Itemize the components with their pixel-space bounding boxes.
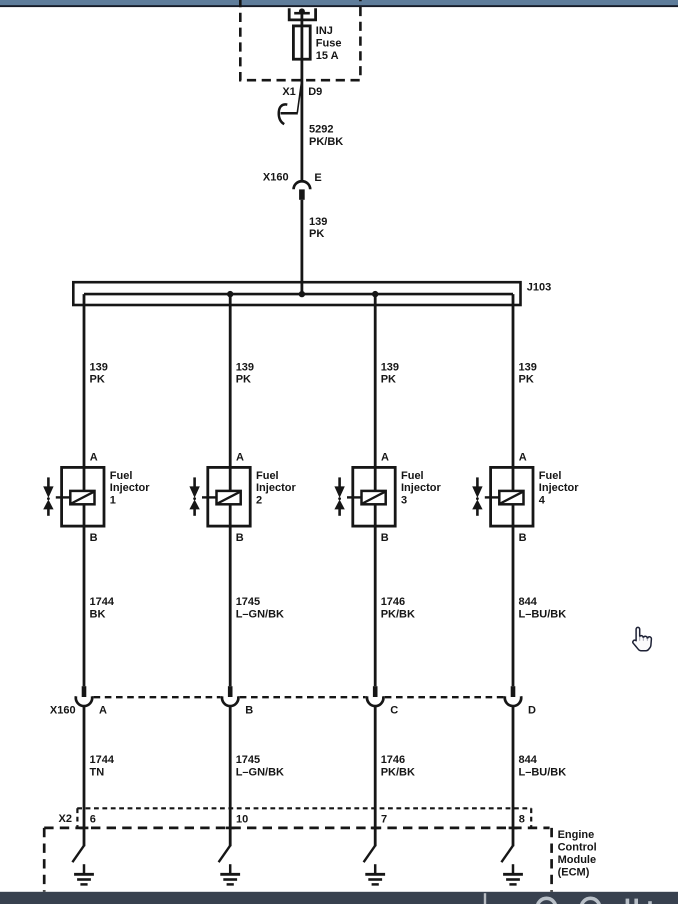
node: X2 pin 7 crossing tick — [371, 827, 380, 830]
svg-text:PK/BK: PK/BK — [381, 609, 415, 621]
bottom toolbar divider — [484, 893, 486, 904]
fuel injector 1 internal wire — [83, 467, 86, 526]
fuel injector 1 nozzle valve arrows — [43, 477, 70, 515]
svg-text:D: D — [528, 705, 536, 717]
svg-text:PK: PK — [236, 374, 251, 386]
wire 139 PK branch 4: J103 to injector 4 pin A — [512, 294, 515, 467]
wire 139 PK: X160 E to splice J103 — [300, 200, 303, 294]
svg-text:Engine: Engine — [558, 829, 595, 841]
ECM box top dashed edge — [44, 827, 549, 830]
svg-text:1744: 1744 — [90, 754, 115, 766]
connector X160 dashed link C-D — [385, 696, 504, 698]
node: X2 pin 6 crossing tick — [80, 827, 89, 830]
mouse hand cursor — [633, 627, 652, 650]
svg-text:Injector: Injector — [110, 482, 150, 494]
pin A label (X160) — [99, 705, 107, 717]
label: wire 139 PK branch 4 — [519, 361, 537, 385]
label: Fuel Injector 1 — [110, 470, 150, 507]
label: wire 139 PK branch 3 — [381, 361, 399, 385]
svg-text:844: 844 — [519, 596, 538, 608]
connector X2 strip left dash — [76, 808, 78, 827]
svg-text:A: A — [90, 452, 98, 464]
svg-text:139: 139 — [236, 361, 254, 373]
node: X2 pin 10 crossing tick — [226, 827, 235, 830]
svg-text:Injector: Injector — [256, 482, 296, 494]
svg-text:139: 139 — [90, 361, 108, 373]
fuel injector 3 outline box — [353, 467, 395, 526]
wire: fuse bottom to X1 pin D9 — [300, 59, 303, 113]
ground G1 (ECM internal) — [74, 864, 94, 884]
pin B label injector 1 — [90, 532, 98, 544]
ECM driver switch blade for injector 1 — [72, 846, 84, 863]
pin B label (X160) — [245, 705, 253, 717]
svg-text:PK: PK — [381, 374, 396, 386]
fuse INJ 15A bus bracket — [289, 8, 315, 20]
connector X1-D9 pigtail terminal symbol — [279, 82, 302, 124]
node: X2 pin 8 crossing tick — [509, 827, 518, 830]
label: Fuel Injector 3 — [401, 470, 441, 507]
svg-text:C: C — [390, 705, 398, 717]
pin A label injector 1 — [90, 452, 98, 464]
svg-text:1745: 1745 — [236, 596, 260, 608]
fuel injector 4 coil (winding with diagonal) — [499, 491, 523, 504]
label: wire 139 PK (main feed) — [309, 216, 327, 240]
label: wire 844 L–BU/BK — [519, 754, 567, 778]
connector X160 label (top) — [263, 171, 289, 183]
splice pack J103 inner bus bar — [84, 293, 513, 296]
svg-text:1746: 1746 — [381, 754, 405, 766]
fuel injector 2 outline box — [208, 467, 250, 526]
svg-text:8: 8 — [519, 813, 525, 825]
label: J103 — [527, 281, 551, 293]
wire 1746 PK/BK: injector 3 pin B to X160 pin C — [374, 526, 377, 686]
label: wire 844 L–BU/BK — [519, 596, 567, 620]
fuel injector 2 internal wire — [229, 467, 232, 526]
connector X160 pin C female cup — [367, 696, 383, 706]
connector X160 pin D female cup — [505, 696, 521, 706]
label: Fuel Injector 2 — [256, 470, 296, 507]
svg-text:Module: Module — [558, 854, 597, 866]
wire 139 PK branch 3: J103 to injector 3 pin A — [374, 294, 377, 467]
bottom toolbar partial text glyphs — [537, 898, 650, 904]
label: wire 1744 BK — [90, 596, 115, 620]
svg-text:X2: X2 — [59, 813, 72, 825]
svg-text:3: 3 — [401, 494, 407, 506]
svg-text:L–GN/BK: L–GN/BK — [236, 609, 284, 621]
label: wire 1745 L–GN/BK — [236, 596, 284, 620]
pin B label injector 4 — [519, 532, 527, 544]
connector X2 dashed strip top line — [77, 807, 531, 809]
connector X160 pin D male terminal — [511, 686, 516, 697]
svg-text:1745: 1745 — [236, 754, 260, 766]
node: junction dot branch 2 — [227, 291, 233, 297]
pin A label injector 2 — [236, 452, 244, 464]
svg-text:TN: TN — [90, 767, 105, 779]
svg-text:Control: Control — [558, 841, 597, 853]
svg-text:X160: X160 — [50, 704, 76, 716]
svg-text:D9: D9 — [308, 86, 322, 98]
wire 1744 TN: X160 pin A to ECM X2 pin 6 — [83, 706, 86, 847]
wire 844 L–BU/BK: injector 4 pin B to X160 pin D — [512, 526, 515, 686]
svg-text:L–BU/BK: L–BU/BK — [519, 609, 567, 621]
fuel injector 3 coil (winding with diagonal) — [362, 491, 386, 504]
connector X160 label (bottom row) — [50, 704, 76, 716]
svg-text:A: A — [236, 452, 244, 464]
label: Fuel Injector 4 — [539, 470, 579, 507]
fuel injector 4 nozzle valve arrows — [472, 477, 499, 515]
connector X160 dashed link A-B — [94, 696, 221, 698]
svg-text:PK: PK — [519, 374, 534, 386]
svg-text:X1: X1 — [282, 86, 295, 98]
pin 6 label (X2) — [90, 813, 96, 825]
wire 1744 BK: injector 1 pin B to X160 pin A — [83, 526, 86, 686]
svg-text:10: 10 — [236, 813, 248, 825]
svg-text:Injector: Injector — [539, 482, 579, 494]
connector X160 pin B male terminal — [228, 686, 233, 697]
label: wire 139 PK branch 1 — [90, 361, 108, 385]
svg-text:B: B — [90, 532, 98, 544]
svg-text:1: 1 — [110, 494, 116, 506]
connector X2 strip right dash — [530, 808, 532, 827]
wire 1745 L–GN/BK: injector 2 pin B to X160 pin B — [229, 526, 232, 686]
svg-text:Fuse: Fuse — [316, 38, 342, 50]
connector X160 pin C male terminal — [373, 686, 378, 697]
fuel injector 2 nozzle valve arrows — [189, 477, 216, 515]
svg-text:Fuel: Fuel — [401, 470, 424, 482]
top browser chrome bar — [0, 0, 678, 7]
pin D label (X160) — [528, 705, 536, 717]
pin B label injector 2 — [236, 532, 244, 544]
svg-text:139: 139 — [381, 361, 399, 373]
fuel injector 2 coil (winding with diagonal) — [217, 491, 241, 504]
ECM driver switch blade for injector 3 — [364, 846, 376, 863]
connector X160 pin A male terminal — [82, 686, 87, 697]
ground G3 (ECM internal) — [365, 864, 385, 884]
svg-text:E: E — [314, 172, 321, 184]
ECM box right dashed edge — [550, 828, 553, 892]
fuel injector 3 nozzle valve arrows — [334, 477, 361, 515]
connector X2 label — [59, 813, 72, 825]
svg-text:L–BU/BK: L–BU/BK — [519, 767, 567, 779]
wire: dot to fuse top — [300, 11, 303, 26]
pin A label injector 4 — [519, 452, 527, 464]
fuel injector 1 outline box — [62, 467, 104, 526]
label: wire 139 PK branch 2 — [236, 361, 254, 385]
svg-text:6: 6 — [90, 813, 96, 825]
svg-text:BK: BK — [90, 609, 106, 621]
fuel injector 3 internal wire — [374, 467, 377, 526]
svg-text:A: A — [519, 452, 527, 464]
ECM driver switch blade for injector 4 — [501, 846, 513, 863]
node: fuse feed junction dot — [299, 8, 305, 14]
wire 139 PK branch 2: J103 to injector 2 pin A — [229, 294, 232, 467]
svg-text:844: 844 — [519, 754, 538, 766]
label: wire 1744 TN — [90, 754, 115, 778]
wire 844 L–BU/BK: X160 pin D to ECM X2 pin 8 — [512, 706, 515, 847]
svg-text:L–GN/BK: L–GN/BK — [236, 767, 284, 779]
pin 7 label (X2) — [381, 813, 387, 825]
label: INJ Fuse 15 A — [316, 25, 342, 62]
svg-text:5292: 5292 — [309, 124, 333, 136]
fuse INJ Fuse 15 A body — [293, 26, 310, 59]
connector X160 dashed link B-C — [240, 696, 366, 698]
connector X160-E terminal symbol (cap and pin) — [294, 181, 311, 200]
connector X160 pin B female cup — [222, 696, 238, 706]
svg-text:B: B — [236, 532, 244, 544]
svg-text:B: B — [381, 532, 389, 544]
bottom browser toolbar bar — [0, 892, 678, 904]
pin C label (X160) — [390, 705, 398, 717]
connector X160 pin A female cup — [76, 696, 92, 706]
node: junction dot feed — [299, 291, 305, 297]
connector X1 label — [282, 86, 295, 98]
svg-text:Fuel: Fuel — [256, 470, 279, 482]
pin 10 label (X2) — [236, 813, 248, 825]
pin A label injector 3 — [381, 452, 389, 464]
wire 1745 L–GN/BK: X160 pin B to ECM X2 pin 10 — [229, 706, 232, 847]
svg-text:B: B — [245, 705, 253, 717]
svg-text:PK/BK: PK/BK — [381, 767, 415, 779]
svg-text:Injector: Injector — [401, 482, 441, 494]
svg-text:(ECM): (ECM) — [558, 866, 590, 878]
label: Engine Control Module (ECM) — [558, 829, 597, 879]
ground G2 (ECM internal) — [220, 864, 240, 884]
svg-text:15 A: 15 A — [316, 50, 339, 62]
label: wire 5292 PK/BK — [309, 124, 343, 148]
fuse block FB dashed box — [240, 0, 360, 80]
splice pack J103 outer box — [73, 282, 520, 305]
pin D9 label — [308, 86, 322, 98]
label: wire 1746 PK/BK — [381, 596, 415, 620]
fuel injector 4 outline box — [491, 467, 533, 526]
svg-text:INJ: INJ — [316, 25, 333, 37]
svg-text:B: B — [519, 532, 527, 544]
wire 1746 PK/BK: X160 pin C to ECM X2 pin 7 — [374, 706, 377, 847]
pin E label — [314, 172, 321, 184]
ground G4 (ECM internal) — [503, 864, 523, 884]
pin 8 label (X2) — [519, 813, 525, 825]
svg-text:Fuel: Fuel — [539, 470, 562, 482]
wire 139 PK branch 1: J103 to injector 1 pin A — [83, 294, 86, 467]
label: wire 1745 L–GN/BK — [236, 754, 284, 778]
svg-text:1746: 1746 — [381, 596, 405, 608]
fuel injector 4 internal wire — [512, 467, 515, 526]
svg-text:1744: 1744 — [90, 596, 115, 608]
svg-text:4: 4 — [539, 494, 546, 506]
svg-text:139: 139 — [519, 361, 537, 373]
ECM driver switch blade for injector 2 — [219, 846, 231, 863]
node: junction dot branch 3 — [372, 291, 378, 297]
svg-text:139: 139 — [309, 216, 327, 228]
svg-text:A: A — [381, 452, 389, 464]
svg-text:Fuel: Fuel — [110, 470, 133, 482]
svg-text:PK/BK: PK/BK — [309, 136, 343, 148]
svg-text:A: A — [99, 705, 107, 717]
svg-text:J103: J103 — [527, 281, 551, 293]
wire 5292 PK/BK: X1 D9 to X160 E — [300, 113, 303, 181]
svg-text:2: 2 — [256, 494, 262, 506]
fuel injector 1 coil (winding with diagonal) — [70, 491, 94, 504]
pin B label injector 3 — [381, 532, 389, 544]
svg-text:7: 7 — [381, 813, 387, 825]
svg-text:PK: PK — [90, 374, 105, 386]
label: wire 1746 PK/BK — [381, 754, 415, 778]
svg-text:X160: X160 — [263, 171, 289, 183]
ECM box left dashed edge — [43, 828, 46, 892]
svg-text:PK: PK — [309, 228, 324, 240]
